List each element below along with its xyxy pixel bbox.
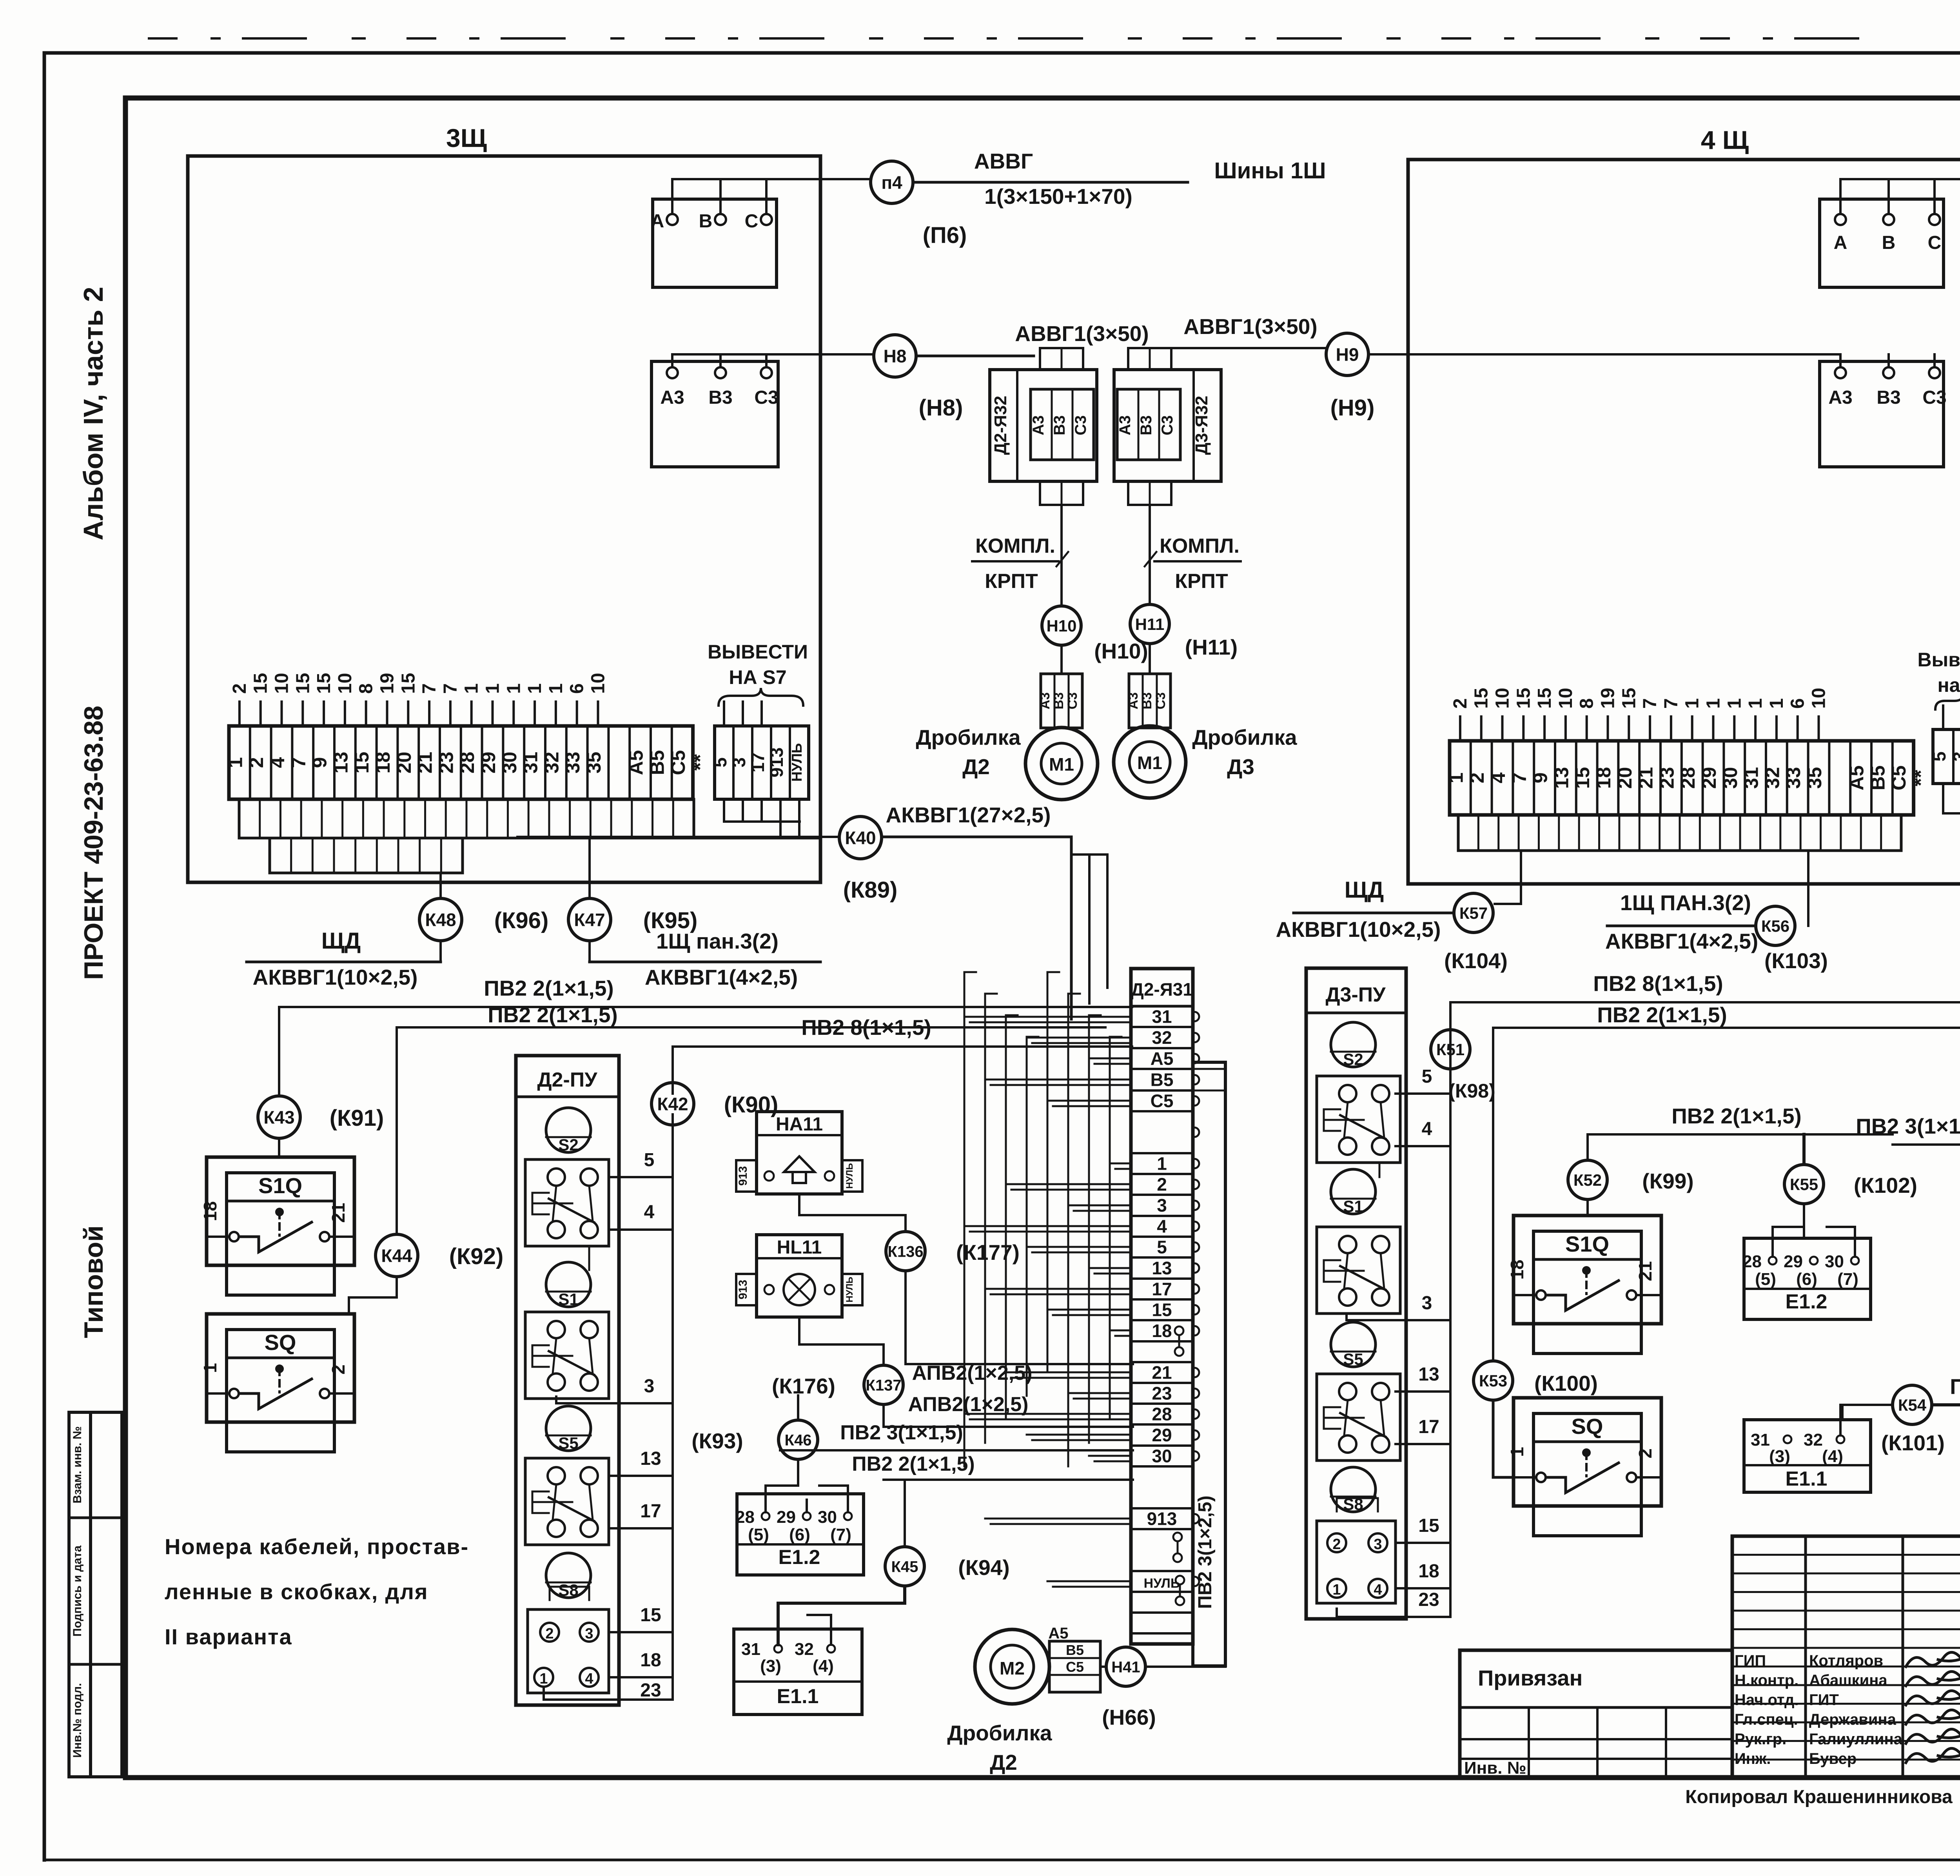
wire АВВГ1(3x50) to Д3-Я32 from Н9 xyxy=(1171,347,1326,349)
svg-text:Галиуллина: Галиуллина xyxy=(1809,1731,1903,1748)
ABC box in 3Щ (top) xyxy=(653,199,777,287)
cable marker Н10 xyxy=(1042,606,1081,645)
svg-text:ПВ2 3(1×1,5): ПВ2 3(1×1,5) xyxy=(1856,1114,1960,1138)
svg-text:Д3-ПУ: Д3-ПУ xyxy=(1325,983,1386,1006)
mech link S2-S1 xyxy=(588,1246,590,1270)
svg-text:Д2-Я31: Д2-Я31 xyxy=(1131,979,1193,1000)
svg-text:9: 9 xyxy=(309,757,331,768)
selector S2 (Д2-ПУ) xyxy=(546,1108,591,1152)
svg-text:31: 31 xyxy=(1740,767,1762,789)
svg-text:К45: К45 xyxy=(891,1558,918,1575)
cable marker К53 (К100) xyxy=(1492,1028,1494,1360)
wire НУЛЬ to К40 xyxy=(517,836,839,838)
svg-text:15: 15 xyxy=(351,752,373,774)
selector S1 (Д2-ПУ) xyxy=(546,1262,591,1307)
limit switch S1Q left xyxy=(207,1157,354,1265)
svg-text:Инв. №: Инв. № xyxy=(1464,1758,1526,1778)
svg-text:А3: А3 xyxy=(1126,692,1141,709)
cable marker К52 (К99) xyxy=(1568,1160,1607,1199)
svg-text:К137: К137 xyxy=(866,1377,901,1394)
svg-text:К46: К46 xyxy=(785,1431,812,1449)
svg-text:18: 18 xyxy=(1507,1259,1527,1279)
wire 4 (Д3-ПУ) xyxy=(1396,1145,1450,1147)
wire 23 (Д3-ПУ) xyxy=(1337,1609,1450,1617)
svg-text:Державина: Державина xyxy=(1809,1711,1896,1728)
cable marker К43 (К91) xyxy=(258,1096,300,1138)
svg-text:SQ: SQ xyxy=(1572,1414,1603,1439)
svg-text:1: 1 xyxy=(483,683,503,694)
svg-text:В: В xyxy=(1882,232,1896,253)
svg-text:3: 3 xyxy=(1422,1293,1432,1314)
cable marker Н41 (Н66) xyxy=(1100,1666,1105,1668)
svg-text:17: 17 xyxy=(640,1501,661,1522)
contact block S2 (Д3-ПУ) xyxy=(1317,1076,1400,1163)
svg-text:32: 32 xyxy=(541,752,563,774)
svg-text:S2: S2 xyxy=(558,1136,578,1154)
svg-text:С5: С5 xyxy=(1888,766,1910,791)
svg-text:30: 30 xyxy=(1152,1446,1172,1466)
wire from HL11 down to К137 xyxy=(799,1317,884,1364)
svg-text:15: 15 xyxy=(1152,1300,1172,1320)
signature scribbles xyxy=(1906,1652,1960,1667)
title block main table xyxy=(1732,1536,1960,1778)
svg-text:13: 13 xyxy=(1418,1364,1439,1385)
svg-text:М2: М2 xyxy=(1000,1658,1025,1678)
svg-text:Д2: Д2 xyxy=(990,1750,1017,1774)
wire 3 to bus xyxy=(556,1397,673,1403)
svg-text:В5: В5 xyxy=(1066,1642,1084,1658)
svg-text:15: 15 xyxy=(398,673,419,694)
svg-text:Н9: Н9 xyxy=(1336,345,1359,365)
svg-text:Типовой: Типовой xyxy=(79,1225,109,1338)
cable marker К47 (К95) xyxy=(568,898,611,941)
svg-text:Н10: Н10 xyxy=(1046,617,1076,635)
svg-text:(6): (6) xyxy=(1796,1270,1817,1289)
svg-text:ПВ2 2(1×1,5): ПВ2 2(1×1,5) xyxy=(1950,1374,1960,1399)
svg-text:10: 10 xyxy=(335,673,356,694)
svg-text:К44: К44 xyxy=(381,1246,412,1266)
svg-text:20: 20 xyxy=(1614,767,1636,789)
svg-text:SQ: SQ xyxy=(265,1330,296,1355)
stubs above Д3-Я32 xyxy=(1128,348,1171,370)
wire 5 (Д3-ПУ) xyxy=(1396,1092,1450,1095)
svg-text:20: 20 xyxy=(393,752,415,774)
svg-text:S1: S1 xyxy=(1343,1197,1363,1216)
wire drop to К57 xyxy=(1520,851,1522,904)
motor М2 Дробилка Д2 xyxy=(975,1629,1049,1704)
cable marker Н9 (Н9) xyxy=(1326,333,1368,376)
selector S1 (Д3-ПУ) xyxy=(1331,1169,1376,1214)
svg-text:3: 3 xyxy=(729,757,749,767)
svg-text:С3: С3 xyxy=(1922,387,1946,408)
svg-text:15: 15 xyxy=(250,673,271,694)
svg-text:1: 1 xyxy=(1445,773,1467,784)
contact block S1 (Д3-ПУ) xyxy=(1317,1227,1400,1314)
svg-text:ПВ2 8(1×1,5): ПВ2 8(1×1,5) xyxy=(1593,971,1723,996)
svg-text:29: 29 xyxy=(477,752,499,774)
svg-text:Шины 1Ш: Шины 1Ш xyxy=(1214,158,1326,183)
cable marker К46 (К93) xyxy=(779,1420,818,1459)
svg-text:А5: А5 xyxy=(1151,1049,1174,1069)
привязан block xyxy=(1460,1650,1732,1778)
svg-text:К52: К52 xyxy=(1573,1171,1602,1189)
svg-text:15: 15 xyxy=(1471,688,1492,709)
svg-text:А5: А5 xyxy=(1846,766,1868,791)
svg-text:10: 10 xyxy=(1492,688,1513,709)
svg-text:1: 1 xyxy=(461,683,482,694)
wire from ABC box to п4 xyxy=(672,178,871,180)
svg-text:Нач.отд.: Нач.отд. xyxy=(1735,1691,1798,1709)
svg-text:С3: С3 xyxy=(1153,692,1168,709)
svg-text:В5: В5 xyxy=(1867,766,1889,791)
svg-text:НА S7: НА S7 xyxy=(729,666,786,688)
svg-text:31: 31 xyxy=(1152,1007,1172,1027)
svg-text:(К93): (К93) xyxy=(691,1429,743,1453)
svg-text:К43: К43 xyxy=(263,1107,294,1128)
svg-text:ПВ2 3(1×2,5): ПВ2 3(1×2,5) xyxy=(1195,1495,1216,1609)
svg-text:4: 4 xyxy=(267,757,289,768)
svg-text:15: 15 xyxy=(1513,688,1534,709)
svg-text:АКВВГ1(27×2,5): АКВВГ1(27×2,5) xyxy=(886,803,1051,827)
wire from A3B3C3 box to Н8 xyxy=(672,353,873,356)
motor lead block А5В5С5 (Д2) xyxy=(1049,1641,1100,1692)
svg-text:3Щ: 3Щ xyxy=(446,123,487,152)
svg-text:Н8: Н8 xyxy=(884,346,907,366)
svg-text:М1: М1 xyxy=(1049,754,1074,775)
svg-text:А3: А3 xyxy=(1828,387,1852,408)
bracket over Вывести на S7 xyxy=(719,688,803,706)
svg-text:2: 2 xyxy=(229,683,250,694)
svg-text:29: 29 xyxy=(1698,767,1720,789)
svg-text:18: 18 xyxy=(1593,767,1615,789)
svg-text:29: 29 xyxy=(777,1508,796,1527)
svg-text:1: 1 xyxy=(224,757,246,768)
svg-text:S1Q: S1Q xyxy=(258,1173,302,1198)
wire ПВ2 2(1x1,5) upper xyxy=(279,1006,1132,1008)
svg-text:8: 8 xyxy=(356,683,377,694)
svg-text:(К99): (К99) xyxy=(1642,1169,1693,1193)
selector S5 (Д2-ПУ) xyxy=(546,1406,591,1451)
cable marker К40 (К89) with АКВВГ1(27x2,5) xyxy=(839,816,882,859)
svg-text:(Н66): (Н66) xyxy=(1102,1705,1156,1729)
wire ПВ2 8(1x1,5) across top xyxy=(673,1045,1132,1048)
svg-text:К47: К47 xyxy=(574,910,605,930)
svg-text:33: 33 xyxy=(562,752,584,774)
svg-text:А3: А3 xyxy=(1116,415,1134,435)
selector S5 (Д3-ПУ) xyxy=(1331,1322,1376,1367)
svg-text:Н11: Н11 xyxy=(1135,615,1165,633)
left margin stamp boxes xyxy=(69,1412,91,1777)
Вывести на S7 strip in 4Щ xyxy=(1933,729,1960,784)
svg-text:В3: В3 xyxy=(1138,415,1155,435)
svg-text:II варианта: II варианта xyxy=(165,1624,292,1649)
terminal strip Д2-Я31 xyxy=(1131,969,1193,1644)
limit switch SQ left xyxy=(207,1314,354,1422)
cable marker К42 (К90) xyxy=(671,1047,674,1094)
svg-text:15: 15 xyxy=(292,673,313,694)
svg-text:(К176): (К176) xyxy=(772,1374,835,1398)
svg-text:А3: А3 xyxy=(1038,692,1053,709)
svg-text:АВВГ: АВВГ xyxy=(974,149,1033,173)
svg-text:1: 1 xyxy=(1507,1447,1527,1457)
svg-text:28: 28 xyxy=(1742,1252,1762,1271)
wires into Е1.2 xyxy=(766,1461,798,1512)
svg-text:ПВ2 2(1×1,5): ПВ2 2(1×1,5) xyxy=(852,1453,975,1475)
svg-text:13: 13 xyxy=(1152,1258,1172,1278)
svg-text:НУЛЬ: НУЛЬ xyxy=(844,1277,855,1302)
svg-text:ПРОЕКТ 409-23-63.88: ПРОЕКТ 409-23-63.88 xyxy=(79,706,109,980)
svg-text:23: 23 xyxy=(1418,1589,1439,1610)
svg-text:**: ** xyxy=(688,754,712,771)
svg-text:5: 5 xyxy=(644,1150,655,1170)
svg-text:S1Q: S1Q xyxy=(1565,1232,1609,1256)
svg-text:Д3: Д3 xyxy=(1227,755,1254,779)
К51 bus (Д3-ПУ) xyxy=(1449,1002,1452,1617)
limit switch SQ right xyxy=(1514,1398,1661,1506)
svg-text:18: 18 xyxy=(372,752,394,774)
svg-text:(Н8): (Н8) xyxy=(919,395,963,421)
svg-text:Подпись и дата: Подпись и дата xyxy=(71,1545,84,1637)
svg-text:К57: К57 xyxy=(1459,904,1488,922)
svg-text:19: 19 xyxy=(377,673,398,694)
svg-text:15: 15 xyxy=(1418,1515,1439,1536)
svg-text:10: 10 xyxy=(588,673,609,694)
svg-text:Вывести: Вывести xyxy=(1917,649,1960,671)
block Е1.1 right xyxy=(1744,1420,1871,1492)
svg-text:ЩД: ЩД xyxy=(321,928,361,954)
Вывести на S7 strip in 3Щ xyxy=(715,726,809,799)
К42 bus vertical xyxy=(671,1114,674,1700)
svg-text:Номера кабелей, простав-: Номера кабелей, простав- xyxy=(165,1534,469,1559)
svg-text:Д3-Я32: Д3-Я32 xyxy=(1192,396,1211,455)
cable marker Н11 xyxy=(1130,604,1169,644)
svg-text:30: 30 xyxy=(818,1508,837,1527)
svg-text:18: 18 xyxy=(1418,1561,1439,1582)
svg-text:19: 19 xyxy=(1598,688,1619,709)
wire 15 (Д3-ПУ) xyxy=(1396,1542,1450,1544)
svg-text:ПВ2 3(1×1,5): ПВ2 3(1×1,5) xyxy=(840,1421,963,1444)
svg-text:Альбом IV, часть 2: Альбом IV, часть 2 xyxy=(78,287,109,540)
svg-text:Д2-ПУ: Д2-ПУ xyxy=(537,1069,597,1091)
svg-text:К53: К53 xyxy=(1479,1372,1507,1390)
outer sheet border xyxy=(44,51,1960,55)
svg-text:10: 10 xyxy=(272,673,292,694)
svg-text:10: 10 xyxy=(1555,688,1576,709)
svg-text:2: 2 xyxy=(1466,773,1488,784)
svg-text:4: 4 xyxy=(1157,1216,1167,1237)
svg-text:4: 4 xyxy=(1487,772,1509,783)
wire from bundle to К48 xyxy=(439,873,442,898)
svg-text:(3): (3) xyxy=(1769,1447,1790,1466)
svg-text:1Щ ПАН.3(2): 1Щ ПАН.3(2) xyxy=(1620,891,1751,915)
svg-text:Дробилка: Дробилка xyxy=(916,725,1021,749)
svg-text:28: 28 xyxy=(735,1508,755,1527)
svg-text:29: 29 xyxy=(1152,1425,1172,1445)
svg-text:на S7: на S7 xyxy=(1937,674,1960,696)
svg-text:31: 31 xyxy=(741,1640,760,1659)
wire 13 (Д3-ПУ) xyxy=(1396,1390,1450,1393)
svg-text:КОМПЛ.: КОМПЛ. xyxy=(1160,535,1240,557)
pin block S8 (Д3-ПУ) xyxy=(1317,1521,1396,1603)
svg-text:1: 1 xyxy=(503,683,524,694)
bundle lower line xyxy=(239,837,820,840)
hooks on right of Д2-Я31 xyxy=(1194,1012,1199,1021)
svg-text:4 Щ: 4 Щ xyxy=(1701,125,1749,154)
terminal strip row 2 (cable bundle) in 3Щ xyxy=(239,799,694,838)
svg-text:Е1.2: Е1.2 xyxy=(1786,1290,1828,1313)
wires above Вывести strip xyxy=(723,702,725,726)
svg-text:2: 2 xyxy=(328,1364,348,1375)
svg-text:3: 3 xyxy=(644,1376,655,1397)
svg-text:Копировал Крашенинникова: Копировал Крашенинникова xyxy=(1685,1787,1953,1807)
svg-text:7: 7 xyxy=(1508,773,1530,784)
wire down to К43 xyxy=(278,1007,280,1096)
wire 4 to bus xyxy=(609,1228,673,1231)
svg-text:2: 2 xyxy=(245,757,267,768)
motor lead block А3В3С3 (Д3) xyxy=(1129,674,1171,728)
svg-text:АПВ2(1×2,5): АПВ2(1×2,5) xyxy=(908,1393,1029,1416)
wire 13 to bus xyxy=(609,1475,673,1477)
svg-text:(5): (5) xyxy=(748,1525,769,1544)
svg-text:А: А xyxy=(651,211,664,232)
svg-text:А3: А3 xyxy=(1030,415,1047,435)
КОМПЛ КРПТ label left xyxy=(972,560,1058,562)
svg-text:33: 33 xyxy=(1782,767,1804,789)
wire ПВ2 8(1x1,5) right xyxy=(1452,1002,1960,1019)
svg-text:1: 1 xyxy=(1682,698,1703,709)
svg-text:НА11: НА11 xyxy=(776,1114,823,1135)
svg-text:S2: S2 xyxy=(1343,1050,1363,1069)
svg-text:К54: К54 xyxy=(1898,1396,1927,1414)
svg-text:АВВГ1(3×50): АВВГ1(3×50) xyxy=(1015,321,1149,346)
wire Д3 drop to motor М1 right xyxy=(1149,505,1151,604)
svg-text:913: 913 xyxy=(1147,1509,1177,1529)
svg-text:3: 3 xyxy=(585,1626,593,1642)
svg-text:30: 30 xyxy=(1825,1252,1844,1271)
svg-text:3: 3 xyxy=(1374,1536,1382,1553)
ABC box in 4Щ xyxy=(1820,199,1944,287)
svg-text:23: 23 xyxy=(1656,767,1678,789)
svg-text:Н.контр.: Н.контр. xyxy=(1735,1672,1798,1689)
svg-text:К136: К136 xyxy=(887,1243,923,1260)
svg-text:Инв.№ подл.: Инв.№ подл. xyxy=(71,1683,84,1758)
svg-text:913: 913 xyxy=(766,747,787,778)
КОМПЛ КРПТ label right xyxy=(1154,560,1241,562)
stubs below Я32 blocks xyxy=(1040,481,1083,505)
svg-text:28: 28 xyxy=(1152,1404,1172,1424)
svg-text:(К98): (К98) xyxy=(1448,1080,1495,1102)
cable п4 labels xyxy=(915,181,1188,184)
svg-text:1: 1 xyxy=(1157,1154,1167,1174)
svg-text:(К91): (К91) xyxy=(330,1105,384,1131)
svg-text:(Н11): (Н11) xyxy=(1185,635,1238,659)
svg-text:Дробилка: Дробилка xyxy=(947,1721,1052,1745)
svg-text:1: 1 xyxy=(1724,698,1745,709)
svg-text:С5: С5 xyxy=(667,750,689,775)
svg-text:Дробилка: Дробилка xyxy=(1192,725,1297,749)
svg-text:(4): (4) xyxy=(1822,1447,1843,1466)
svg-text:ПВ2 2(1×1,5): ПВ2 2(1×1,5) xyxy=(1597,1003,1727,1027)
svg-text:7: 7 xyxy=(440,683,461,694)
svg-text:HL11: HL11 xyxy=(777,1237,822,1258)
svg-text:18: 18 xyxy=(200,1201,220,1221)
svg-text:С: С xyxy=(745,211,759,232)
svg-text:1: 1 xyxy=(546,683,566,694)
terminal strip row 2 in 4Щ xyxy=(1458,815,1901,851)
svg-text:4: 4 xyxy=(585,1671,593,1687)
svg-text:ПВ2 2(1×1,5): ПВ2 2(1×1,5) xyxy=(488,1003,618,1027)
svg-text:В3: В3 xyxy=(708,387,732,408)
motor lead block А3В3С3 (Д2) xyxy=(1041,674,1082,728)
A3B3C3 box in 3Щ (second) xyxy=(652,361,778,467)
wire ПВ2 2(1x1,5) lower xyxy=(397,1026,1105,1029)
svg-text:5: 5 xyxy=(1929,751,1949,762)
wire from НА11 down xyxy=(799,1194,906,1215)
lamp HL11 with 913/НУЛЬ xyxy=(757,1235,842,1317)
svg-text:ПВ2 2(1×1,5): ПВ2 2(1×1,5) xyxy=(1671,1104,1802,1128)
svg-text:6: 6 xyxy=(567,683,588,694)
svg-text:(П6): (П6) xyxy=(923,223,967,248)
svg-text:(7): (7) xyxy=(830,1525,851,1544)
wire 17 to bus xyxy=(609,1527,673,1529)
wire A3B3C3 to Н9 through 4Щ edge xyxy=(1408,353,1840,356)
svg-text:Гл.спец.: Гл.спец. xyxy=(1735,1711,1798,1728)
svg-text:32: 32 xyxy=(1152,1027,1172,1048)
svg-text:35: 35 xyxy=(1804,767,1826,789)
cable marker К57 (К104) xyxy=(1454,893,1493,933)
control panel Д3-ПУ xyxy=(1306,968,1406,1619)
svg-text:АВВГ1(3×50): АВВГ1(3×50) xyxy=(1183,314,1317,339)
svg-text:АКВВГ1(4×2,5): АКВВГ1(4×2,5) xyxy=(645,965,798,989)
cable marker Н8 xyxy=(874,335,916,377)
svg-text:28: 28 xyxy=(456,752,478,774)
svg-text:М1: М1 xyxy=(1137,753,1162,773)
svg-text:4: 4 xyxy=(1422,1119,1432,1139)
svg-text:ГИП: ГИП xyxy=(1735,1652,1766,1669)
wire 23 to bus xyxy=(544,1687,673,1700)
svg-text:АКВВГ1(10×2,5): АКВВГ1(10×2,5) xyxy=(253,965,418,989)
svg-text:Д2-Я32: Д2-Я32 xyxy=(991,396,1010,455)
wires into Е1.2 right xyxy=(1773,1227,1804,1257)
wire across to К49 xyxy=(1943,812,1960,815)
svg-text:А3: А3 xyxy=(660,387,684,408)
svg-text:Взам. инв. №: Взам. инв. № xyxy=(71,1426,84,1504)
svg-text:Котляров: Котляров xyxy=(1809,1652,1883,1669)
svg-text:15: 15 xyxy=(1619,688,1639,709)
svg-text:13: 13 xyxy=(640,1448,661,1469)
svg-text:(К104): (К104) xyxy=(1444,949,1508,973)
svg-text:1: 1 xyxy=(1332,1582,1341,1598)
cable marker К136 (К177) xyxy=(904,1215,907,1231)
svg-text:С5: С5 xyxy=(1151,1091,1174,1111)
svg-text:S1: S1 xyxy=(558,1290,578,1308)
cable duct ПВ2 3(1x2,5) right of Д2-Я31 xyxy=(1193,1062,1225,1666)
svg-text:ГИТ: ГИТ xyxy=(1809,1691,1839,1709)
panel 4Щ outline xyxy=(1408,160,1960,884)
wire К45 to Е1.1 xyxy=(778,1587,905,1645)
svg-text:А5: А5 xyxy=(1048,1625,1068,1642)
svg-text:913: 913 xyxy=(737,1280,750,1299)
svg-text:НУЛЬ: НУЛЬ xyxy=(789,743,805,782)
svg-text:К42: К42 xyxy=(657,1094,688,1114)
cable flag ЩД АКВВГ1(10x2,5) left xyxy=(439,941,442,962)
svg-text:(3): (3) xyxy=(760,1656,781,1676)
svg-text:ПВ2 8(1×1,5): ПВ2 8(1×1,5) xyxy=(801,1015,931,1040)
svg-text:Е1.1: Е1.1 xyxy=(1786,1468,1828,1490)
svg-text:ЩД: ЩД xyxy=(1345,877,1384,903)
cable marker п4 xyxy=(871,161,913,203)
wire К40 cable drop to Д2-Я31 area xyxy=(1070,837,1073,968)
